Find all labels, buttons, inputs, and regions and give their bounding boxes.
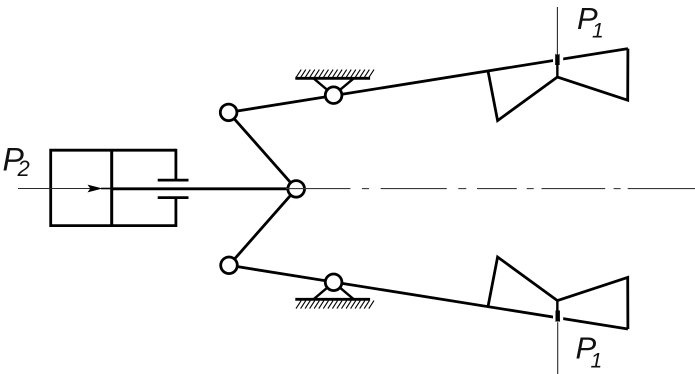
force P1 upper line — [556, 7, 558, 56]
dash-dot centerline — [286, 188, 695, 190]
upper ground hatching — [296, 70, 374, 78]
upper fixed pivot circle — [325, 87, 342, 104]
rod gland lower line — [158, 196, 189, 199]
force P2 arrowhead — [88, 185, 103, 193]
lower jaw shared edge redraw — [556, 301, 558, 318]
upper pivot support triangle legs — [314, 78, 354, 95]
lower jaw (bow-tie wedge) outline — [488, 257, 628, 329]
svg-text:1: 1 — [592, 19, 604, 42]
force P1 lower arrowhead — [555, 303, 560, 322]
lower joint circle — [221, 257, 238, 274]
white mask around lower arrowhead — [553, 314, 563, 323]
rod gland upper line — [158, 179, 189, 182]
lower fixed pivot circle — [325, 274, 342, 291]
white mask around upper arrowhead — [553, 55, 563, 64]
upper lever (from upper joint through fixed pivot to right end) — [229, 49, 628, 113]
lower jaw shared vertical edge — [556, 301, 558, 318]
piston — [110, 150, 113, 225]
link: central joint to lower joint — [229, 189, 296, 265]
upper jaw (bow-tie wedge) outline — [488, 49, 628, 121]
link: central joint to upper joint — [229, 112, 297, 188]
lower ground line — [295, 298, 370, 301]
lower lever (from lower joint through fixed pivot to right end) — [229, 265, 628, 329]
cylinder body — [51, 149, 176, 227]
svg-text:1: 1 — [591, 349, 603, 372]
upper jaw shared vertical edge — [556, 60, 558, 77]
svg-text:2: 2 — [17, 156, 30, 181]
central joint circle — [288, 181, 305, 198]
force P1 upper arrowhead — [555, 54, 559, 67]
upper joint circle — [220, 104, 237, 121]
upper jaw shared edge redraw — [556, 60, 558, 77]
upper ground line — [295, 77, 370, 80]
lower pivot support triangle legs — [314, 282, 354, 299]
piston rod (thick link from piston to central joint) — [112, 187, 288, 190]
force P2 line — [18, 188, 111, 190]
force P1 lower line — [557, 318, 559, 374]
lower ground hatching — [296, 301, 374, 309]
